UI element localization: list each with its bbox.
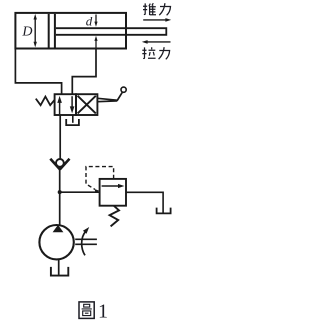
wire relief outlet	[126, 192, 163, 213]
label pull force (li)	[159, 47, 170, 59]
valve V1 crossed position	[78, 96, 96, 114]
valve V1 spring	[36, 97, 55, 106]
svg-text:D: D	[21, 25, 32, 40]
valve V1 left position box	[55, 94, 76, 115]
wire branch to relief valve	[60, 191, 100, 193]
junction node	[58, 190, 62, 194]
dimension arrow d upper	[94, 15, 97, 27]
pilot line (dashed)	[86, 167, 114, 190]
pull force arrow	[142, 40, 171, 44]
label pull force (la)	[142, 47, 155, 58]
valve V1 right position box	[76, 94, 97, 115]
tank T2	[157, 208, 171, 214]
label D	[21, 25, 32, 40]
piston rod	[56, 27, 166, 35]
piston	[49, 14, 55, 48]
pump rotation arrow	[82, 227, 90, 255]
label push force (tui)	[143, 3, 156, 15]
valve V1 flow arrow up	[57, 96, 62, 114]
caption figure glyph (tu)	[79, 302, 94, 319]
pump shaft	[75, 239, 97, 244]
relief valve flow arrow	[102, 184, 125, 188]
label d	[86, 13, 93, 28]
check valve	[50, 159, 69, 170]
valve V1 flow arrow down	[70, 96, 75, 113]
svg-text:1: 1	[98, 300, 108, 322]
pump P1	[39, 225, 73, 260]
wire rod-end pipe	[72, 49, 96, 95]
valve V1 lever	[97, 87, 126, 102]
wire cap-end pipe	[15, 49, 61, 95]
dimension arrow D	[34, 14, 37, 48]
wire P line	[59, 115, 62, 226]
wire T port	[72, 115, 74, 123]
label push force (li)	[159, 3, 170, 15]
wire pump suction	[58, 259, 60, 275]
caption figure number	[98, 300, 108, 322]
tank T1	[66, 119, 79, 125]
cylinder body	[15, 13, 126, 49]
relief valve spring	[110, 206, 119, 227]
relief valve body	[100, 179, 126, 206]
push force arrow	[143, 18, 171, 22]
svg-text:d: d	[86, 13, 93, 28]
tank T3	[51, 267, 68, 276]
dimension arrow d lower	[94, 36, 97, 48]
relief valve inlet arrowhead	[95, 189, 100, 193]
